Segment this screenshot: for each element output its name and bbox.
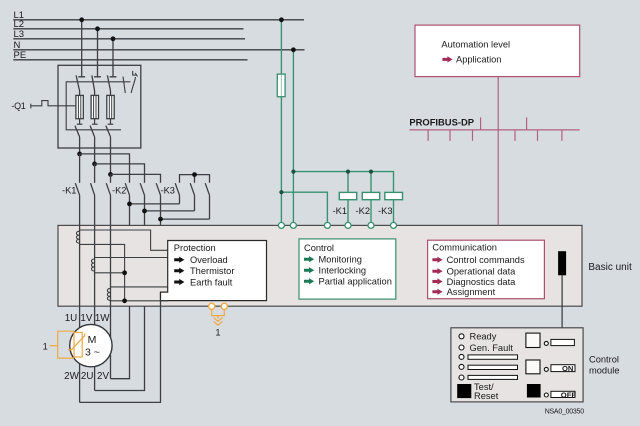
svg-text:2U: 2U: [81, 371, 94, 382]
junction phase A branch: [77, 152, 82, 157]
svg-text:Control commands: Control commands: [447, 255, 525, 265]
Q1 pole 1 fixed contact: [76, 75, 85, 95]
junction tie 3: [158, 217, 163, 222]
contactor K3 pole 2: [190, 183, 194, 211]
wire K1 pole 3 feed: [110, 174, 112, 182]
svg-text:Automation level: Automation level: [441, 39, 510, 49]
svg-text:PROFIBUS-DP: PROFIBUS-DP: [409, 116, 474, 127]
current transformer T3: [107, 288, 110, 300]
junction coil bus K1: [346, 170, 350, 174]
wire phase B from L2 to Q1: [97, 29, 99, 77]
LED gen fault: [459, 345, 464, 350]
svg-text:2V: 2V: [97, 371, 109, 382]
contactor K2 pole 1: [125, 183, 129, 225]
svg-text:Protection: Protection: [174, 243, 216, 253]
contactor K1 pole 1: [75, 183, 79, 225]
svg-text:module: module: [589, 366, 620, 376]
current transformer T1: [76, 231, 79, 243]
svg-text:Partial application: Partial application: [319, 277, 392, 287]
junction CT return T3: [122, 298, 127, 303]
junction green N: [291, 47, 296, 52]
automation level box: [415, 25, 580, 77]
bus tick 4 up: [480, 117, 482, 129]
arrow partial application: [304, 278, 314, 284]
bus tick 6 up: [526, 117, 528, 129]
svg-text:Application: Application: [456, 55, 501, 65]
circuit breaker Q1 inner frame: [66, 82, 130, 130]
button test/reset: [457, 384, 471, 398]
wire K1 pole 1 feed: [79, 154, 81, 183]
arrow overload: [174, 257, 184, 263]
basic unit box: [58, 225, 582, 306]
wire T1 top tap: [80, 230, 168, 250]
svg-text:Control: Control: [304, 243, 334, 253]
wire K1 pole 2 feed: [94, 164, 96, 183]
junction star bridge: [192, 172, 197, 177]
LED 5: [459, 375, 464, 380]
terminal circles on basic unit: [278, 222, 396, 228]
control module box: [451, 328, 583, 402]
svg-text:M: M: [88, 334, 97, 346]
svg-text:L3: L3: [14, 29, 25, 40]
LED out 2: [544, 367, 548, 371]
svg-text:PE: PE: [14, 50, 27, 61]
arrow thermistor: [174, 268, 184, 274]
contactor K3 pole 3: [205, 183, 209, 219]
PROFIBUS drop wire: [497, 77, 499, 226]
wire thermistor terminal U: [212, 309, 225, 318]
svg-text:1W: 1W: [95, 313, 110, 324]
svg-text:Diagnostics data: Diagnostics data: [447, 277, 517, 287]
svg-text:OFF: OFF: [561, 390, 577, 399]
button blank 1: [526, 333, 540, 347]
svg-text:-K3: -K3: [378, 206, 392, 216]
Q1 trip pulse symbol: [31, 101, 76, 109]
wire phase C through basic unit to motor 1W: [110, 225, 112, 346]
contactor K2 pole 3: [156, 183, 160, 225]
thermistor R1 body: [74, 332, 82, 357]
LED ready: [459, 334, 464, 339]
wire riser to 2V: [111, 306, 130, 379]
svg-text:Reset: Reset: [474, 391, 499, 401]
wire CT return notch: [161, 291, 168, 293]
wire T2 bottom tap: [95, 272, 125, 274]
wire branch C to K2 pole 3: [111, 174, 161, 182]
junction coil bus K2: [369, 170, 373, 174]
Q1 auxiliary contact: [123, 71, 138, 93]
junction phase B branch: [92, 162, 97, 167]
Q1 pole 2 lower contact: [90, 126, 95, 164]
arrow interlocking: [304, 267, 314, 273]
thermistor R1 frame: [58, 331, 74, 358]
junction tie 1: [127, 202, 132, 207]
bus tick 1: [427, 130, 429, 141]
communication box: [428, 240, 545, 299]
arrow control commands: [432, 257, 442, 263]
wire branch B to K2 pole 2: [95, 164, 145, 183]
svg-text:Communication: Communication: [432, 242, 497, 252]
svg-text:Basic unit: Basic unit: [588, 262, 632, 273]
green control wire from N: [292, 50, 294, 226]
PROFIBUS bus line: [409, 129, 579, 131]
wire coil K3 output: [393, 200, 395, 226]
arrow application: [442, 56, 452, 62]
contactor K3 pole 1: [175, 183, 179, 204]
svg-text:Operational data: Operational data: [447, 267, 517, 277]
bus tick 5: [514, 130, 516, 141]
wire phase A through basic unit to motor 1U: [79, 225, 81, 346]
svg-text:1V: 1V: [80, 313, 92, 324]
wire T1 bottom tap: [80, 244, 125, 300]
svg-text:Earth fault: Earth fault: [190, 277, 233, 287]
wire phase B through basic unit to motor 1V: [94, 225, 96, 346]
svg-text:Ready: Ready: [470, 332, 497, 342]
wire T2 top tap: [95, 257, 168, 259]
Q1 pole 3 lower contact: [106, 126, 111, 175]
svg-text:Assignment: Assignment: [447, 287, 496, 297]
wire tie K2-K3 pole 1: [130, 203, 180, 205]
LED out 1: [544, 341, 548, 345]
control box: [299, 239, 396, 299]
wire coil K2 output: [370, 200, 372, 226]
svg-text:-K2: -K2: [356, 206, 370, 216]
bus tick 8: [561, 130, 563, 141]
svg-text:1U: 1U: [65, 313, 78, 324]
current transformer T2: [91, 259, 94, 271]
junction L1: [79, 17, 84, 22]
Q1 overload element pole 3: [107, 95, 114, 124]
coil K2: [362, 192, 379, 199]
LED 3 field: [468, 355, 518, 359]
green wire branch to terminal 3: [281, 192, 327, 225]
junction tie 2: [142, 209, 147, 214]
LED out 3: [544, 393, 548, 397]
Q1 pole 2 fixed contact: [92, 75, 101, 95]
wire tie K2-K3 pole 2: [145, 210, 195, 212]
thermistor arrow symbol: [214, 318, 223, 326]
wire PE: [13, 59, 247, 61]
Q1 pole 1 lower contact: [75, 126, 80, 154]
wire L1: [13, 19, 304, 21]
svg-text:1: 1: [43, 341, 48, 351]
svg-text:2W: 2W: [64, 371, 79, 382]
wire L2: [13, 28, 243, 30]
junction L2: [95, 26, 100, 31]
svg-text:NSA0_00350: NSA0_00350: [545, 408, 585, 415]
wire riser to 2W: [80, 292, 161, 402]
circuit breaker Q1 box: [58, 65, 141, 148]
coil K1: [339, 192, 356, 199]
button black off: [527, 384, 541, 398]
protection box: [161, 241, 267, 301]
LED 3: [459, 354, 464, 359]
svg-text:Thermistor: Thermistor: [190, 266, 234, 276]
green coil bus: [293, 172, 393, 193]
field ON: [551, 365, 575, 372]
LED 4: [459, 364, 464, 369]
junction CT return T2: [122, 270, 127, 275]
svg-text:-K1: -K1: [333, 206, 347, 216]
junction green branch: [279, 190, 283, 194]
arrow earth fault: [174, 279, 184, 285]
wire riser to 2U: [95, 306, 145, 390]
contactor K2 pole 2: [140, 183, 144, 225]
svg-text:Interlocking: Interlocking: [319, 266, 367, 276]
contactor K1 pole 2: [91, 183, 95, 225]
thermistor R1 symbol: [68, 333, 85, 349]
Q1 overload element pole 2: [91, 95, 98, 124]
svg-text:ON: ON: [562, 364, 573, 373]
LED 4 field: [468, 365, 518, 369]
svg-text:-K2: -K2: [112, 186, 126, 196]
junction coil bus N: [291, 170, 295, 174]
thermistor terminal circles: [209, 303, 228, 309]
svg-text:-Q1: -Q1: [11, 101, 25, 111]
junction phase C branch: [108, 172, 113, 177]
Q1 overload element pole 1: [76, 95, 83, 124]
wire tie K2-K3 pole 3: [161, 218, 210, 220]
wire T3 bottom tap: [111, 300, 161, 302]
connector bar on basic unit: [558, 251, 566, 275]
svg-text:3 ~: 3 ~: [85, 346, 100, 358]
wire phase A from L1 to Q1: [81, 20, 83, 77]
LED 5 field: [468, 375, 518, 379]
junction green L1: [279, 17, 284, 22]
field out 1: [551, 339, 575, 345]
arrow monitoring: [304, 256, 314, 262]
wire thermistor lead 1: [50, 345, 58, 347]
wire phase C from L3 to Q1: [112, 39, 114, 77]
arrow assignment: [432, 289, 442, 295]
arrow diagnostics data: [432, 278, 442, 284]
svg-text:-K1: -K1: [62, 186, 76, 196]
wire L3: [13, 38, 245, 40]
wire thermistor input tab: [160, 300, 168, 302]
Q1 pole 3 fixed contact: [107, 75, 116, 95]
wire branch A to K2 pole 1: [80, 154, 130, 183]
wire T3 top tap: [111, 286, 168, 288]
bus tick 2: [449, 130, 451, 141]
motor M1: [70, 324, 112, 366]
wire N: [13, 49, 304, 51]
svg-text:Monitoring: Monitoring: [319, 255, 362, 265]
contactor K1 pole 3: [106, 183, 110, 225]
coil K3: [385, 192, 403, 199]
fuse F1: [277, 74, 285, 97]
junction L3: [111, 36, 116, 41]
svg-text:-K3: -K3: [161, 186, 175, 196]
svg-text:Overload: Overload: [190, 255, 228, 265]
wire coil K1 output: [347, 200, 349, 226]
svg-text:1: 1: [215, 328, 220, 338]
svg-text:Gen. Fault: Gen. Fault: [470, 343, 514, 353]
wire basic unit to control module: [561, 275, 563, 328]
arrow operational data: [432, 268, 442, 274]
button blank 2: [526, 360, 540, 374]
green control wire from L1: [280, 20, 282, 226]
star bridge bus K3: [180, 175, 210, 183]
bus tick 3: [472, 130, 474, 141]
svg-text:Control: Control: [589, 355, 619, 365]
bus tick 7: [537, 130, 539, 141]
field OFF: [551, 391, 575, 397]
